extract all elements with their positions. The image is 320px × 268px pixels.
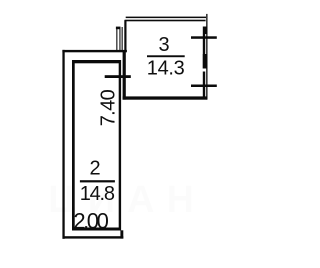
svg-text:3: 3 xyxy=(158,34,169,56)
svg-text:2: 2 xyxy=(89,158,100,180)
svg-text:14.3: 14.3 xyxy=(147,58,185,80)
svg-text:7.40: 7.40 xyxy=(98,89,120,126)
svg-text:ЦИАН: ЦИАН xyxy=(48,179,206,221)
